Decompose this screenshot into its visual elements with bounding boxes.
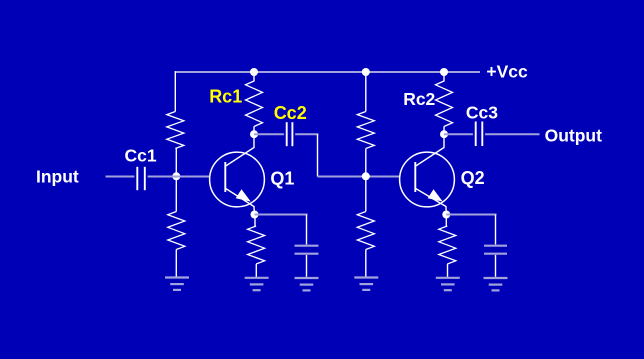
svg-text:Cc3: Cc3 [466,102,498,122]
svg-text:Q1: Q1 [270,169,294,189]
label Q2 [461,168,485,188]
resistor Rc2 (collector load, stage 2) [436,72,453,134]
wire Ce1 to ground [306,255,308,277]
capacitor Cc2 plates [287,122,293,146]
svg-text:Output: Output [545,126,603,146]
wire node D to Cc3 [444,133,473,135]
wire Cc1 to Q1 base through node A [148,176,210,178]
capacitor Cc3 plates [476,122,483,147]
node dot on rail above Rc2 [440,68,448,76]
resistor R1 (upper bias, stage 1) [167,112,184,149]
node E (Q1 emitter junction) [251,211,259,219]
wire Ce2 to ground [495,255,497,277]
wire R1 to node A [175,149,177,177]
node dot on rail above R3 [362,68,370,76]
node F (Q2 emitter junction) [442,211,450,219]
label Rc2 [403,89,435,109]
node D (Q2 collector junction) [440,130,448,138]
node B (Q1 collector junction) [250,130,258,138]
wire input to Cc1 [106,176,135,178]
svg-text:+Vcc: +Vcc [486,61,528,81]
transistor Q2 emitter lead with arrow [416,189,447,215]
transistor Q1 collector lead [226,134,254,166]
ground (stage 1 bias divider) [165,278,189,290]
label Cc3 [466,102,498,122]
wire node E to bypass capacitor Ce1 [255,215,308,245]
resistor Rc1 (collector load, stage 1) [246,72,263,134]
ground (Ce2) [484,278,508,290]
resistor Re2 (emitter, stage 2) [439,215,456,278]
wire corner to Q2 base through node C [318,176,400,178]
resistor R3 (upper bias, stage 2) [357,72,374,176]
svg-text:Cc1: Cc1 [125,145,157,165]
wire Cc3 to output [485,133,539,135]
capacitor Ce1 plates [295,246,319,254]
wire Cc2 to Q2 base corner [295,134,318,176]
ground (Re2) [436,278,460,290]
label Q1 [270,169,294,189]
svg-text:Input: Input [36,167,79,187]
transistor Q1 base bar [224,162,226,192]
ground (Re1) [245,278,269,290]
label +Vcc [486,61,528,81]
top power rail wire to +Vcc [175,71,480,73]
svg-text:Cc2: Cc2 [274,103,307,123]
resistor R4 (lower bias, stage 2) [357,176,374,277]
ground (Ce1) [295,278,319,290]
transistor Q1 emitter lead with arrow [226,189,255,215]
label Cc1 [125,145,157,165]
wire node F to bypass capacitor Ce2 [446,215,496,245]
transistor Q1 body circle [210,152,265,207]
node A (Q1 base junction) [172,172,180,180]
wire node B to Cc2 [254,133,284,135]
svg-text:Q2: Q2 [461,168,485,188]
transistor Q2 body circle [400,152,455,207]
capacitor Cc1 plates [137,167,145,190]
svg-text:Rc1: Rc1 [209,86,242,106]
svg-text:Rc2: Rc2 [403,89,435,109]
resistor R2 (lower bias, stage 1) [168,176,185,277]
transistor Q2 collector lead [416,134,444,166]
node dot on rail above Rc1 [250,68,258,76]
wire rail left drop to R1 [174,71,176,111]
label Output [545,126,603,146]
node C (Q2 base junction) [362,172,370,180]
label Input [36,167,79,187]
resistor Re1 (emitter, stage 1) [248,215,265,278]
ground (stage 2 bias divider) [354,278,378,290]
capacitor Ce2 plates [484,246,507,254]
label Cc2 [274,103,307,123]
label Rc1 [209,86,242,106]
transistor Q2 base bar [414,162,416,192]
